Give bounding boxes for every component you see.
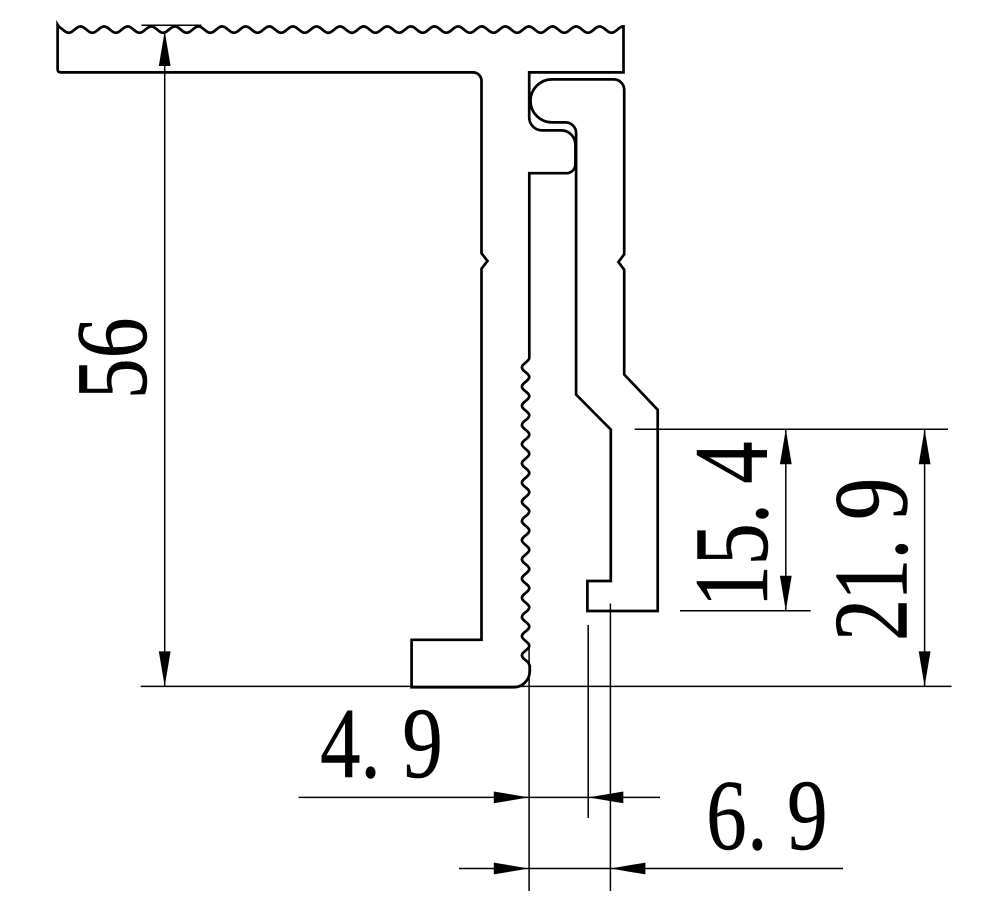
svg-text:1: 1 bbox=[672, 565, 790, 607]
svg-text:6: 6 bbox=[706, 760, 746, 872]
svg-text:.: . bbox=[672, 503, 790, 524]
svg-text:.: . bbox=[361, 688, 381, 800]
svg-text:2: 2 bbox=[812, 599, 930, 641]
svg-text:.: . bbox=[812, 538, 930, 559]
svg-text:9: 9 bbox=[787, 760, 827, 872]
svg-text:1: 1 bbox=[812, 559, 930, 601]
svg-text:5: 5 bbox=[55, 358, 168, 399]
svg-text:9: 9 bbox=[812, 478, 930, 520]
svg-text:5: 5 bbox=[672, 523, 790, 565]
svg-text:4: 4 bbox=[672, 441, 790, 483]
svg-text:4: 4 bbox=[320, 688, 360, 800]
svg-text:.: . bbox=[747, 760, 767, 872]
svg-text:6: 6 bbox=[55, 317, 168, 358]
svg-text:9: 9 bbox=[402, 688, 442, 800]
